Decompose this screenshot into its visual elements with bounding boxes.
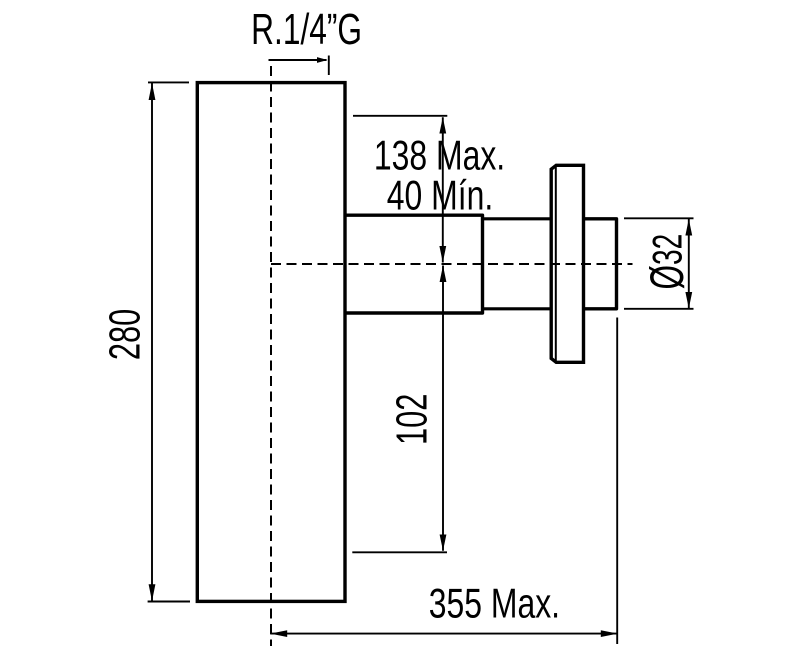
valve body xyxy=(197,83,345,602)
shaft section 3 xyxy=(584,219,617,309)
dimension 102 extension line xyxy=(352,551,447,553)
dimension diameter 32 extension line top xyxy=(624,217,694,219)
dimension 280 arrow up xyxy=(149,83,156,100)
dimension 138 line xyxy=(442,117,444,262)
dimension 280 line xyxy=(151,83,153,601)
dimension R tick xyxy=(328,56,330,76)
dimension 355 extension line right xyxy=(616,318,618,645)
svg-text:280: 280 xyxy=(101,309,150,360)
svg-text:Ø32: Ø32 xyxy=(642,234,694,290)
dimension 138 arrow up xyxy=(439,117,446,133)
dimension 102 arrow up at centerline xyxy=(440,266,447,283)
dimension 102 arrow down xyxy=(440,535,447,551)
dimension R line xyxy=(269,59,327,61)
dimension 355 arrow right xyxy=(601,630,618,637)
vertical centerline xyxy=(270,66,272,646)
shaft section 1 xyxy=(345,215,483,313)
dimension diameter 32 extension line bottom xyxy=(624,308,694,310)
dimension 355 arrow left xyxy=(270,630,287,637)
dimension diameter 32 arrow up xyxy=(685,219,692,236)
dimension 355 line xyxy=(270,633,618,635)
svg-text:40 Mín.: 40 Mín. xyxy=(387,171,493,218)
dimension 102 line xyxy=(442,266,444,551)
dimension 138 arrow down at centerline xyxy=(439,246,446,263)
dimension R arrow right xyxy=(317,57,328,63)
flange xyxy=(551,165,583,362)
dimension diameter 32 line xyxy=(688,219,690,309)
horizontal centerline xyxy=(271,263,633,265)
svg-text:355 Max.: 355 Max. xyxy=(429,579,560,626)
dimension diameter 32 arrow down xyxy=(685,292,692,309)
dimension 138 extension line xyxy=(353,115,447,117)
svg-text:102: 102 xyxy=(388,394,437,445)
dimension 280 arrow down xyxy=(149,584,156,601)
dimension 280 extension line bottom xyxy=(148,601,190,603)
dimension 280 extension line top xyxy=(148,81,189,83)
shaft section 2 top xyxy=(483,217,552,220)
shaft section 2 bottom xyxy=(483,307,552,310)
svg-text:R.1/4”G: R.1/4”G xyxy=(251,5,362,54)
